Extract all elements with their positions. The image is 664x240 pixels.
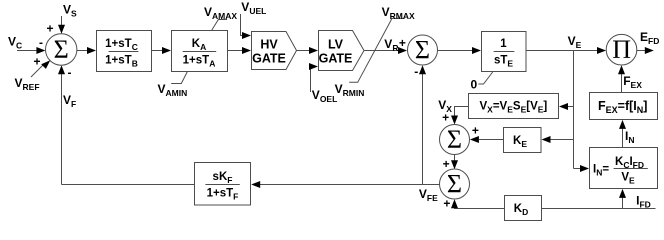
block integrator 1/sTE: [482, 32, 527, 72]
wire KF block output to VF riser: [62, 184, 195, 186]
svg-text:VR: VR: [384, 37, 398, 53]
wire LV gate to S2: [364, 47, 407, 54]
wire VE to VX block: [559, 103, 574, 110]
svg-text:VUEL: VUEL: [241, 0, 266, 16]
svg-text:VRMAX: VRMAX: [382, 5, 415, 21]
svg-text:VC: VC: [8, 34, 22, 50]
wire FEX into multiplier: [618, 65, 625, 92]
LV gate: [319, 31, 365, 71]
wire VFE riser to S2: [419, 65, 426, 184]
summing junction S1: [46, 34, 77, 65]
svg-text:VREF: VREF: [15, 76, 40, 92]
svg-text:VRMIN: VRMIN: [335, 82, 365, 98]
wire lead-lag to KA block: [152, 47, 171, 54]
block KD: [505, 196, 542, 221]
svg-text:LV: LV: [328, 38, 344, 52]
wire HV gate to LV gate: [297, 47, 319, 54]
svg-text:+: +: [399, 36, 406, 50]
svg-text:VF: VF: [63, 93, 76, 109]
summing junction S2: [408, 35, 438, 65]
wire VOEL into LV gate: [309, 63, 318, 92]
wire VE to KE block: [542, 136, 574, 143]
svg-text:0: 0: [471, 78, 478, 92]
svg-text:IN: IN: [625, 129, 634, 145]
svg-text:GATE: GATE: [319, 52, 353, 66]
summing junction S4: [440, 169, 470, 199]
svg-text:+: +: [442, 111, 449, 125]
limiter pointer VRMAX/VRMIN slash: [349, 18, 404, 82]
wire KA block to HV gate: [228, 47, 251, 54]
wire VC into S1 left: [17, 47, 45, 54]
block lead-lag (1+sTC)/(1+sTB): [97, 31, 152, 72]
svg-text:Σ: Σ: [447, 125, 462, 154]
wire VE to IN block: [574, 165, 590, 172]
node VE junction riser: [573, 51, 575, 169]
wire S3 to S4: [451, 155, 458, 170]
svg-text:Σ: Σ: [415, 36, 430, 65]
svg-text:VAMIN: VAMIN: [158, 82, 188, 98]
wire VREF diagonal into S1: [31, 60, 50, 77]
svg-text:IFD: IFD: [636, 193, 651, 209]
svg-text:-: -: [414, 64, 418, 78]
block KE: [504, 128, 542, 153]
svg-text:FEX: FEX: [623, 74, 642, 90]
svg-text:+: +: [443, 197, 450, 211]
wire S1 to lead-lag block: [77, 47, 96, 54]
wire integrator to multiplier: [526, 47, 606, 54]
svg-text:-: -: [68, 66, 72, 80]
wire VS into S1 top: [58, 16, 65, 34]
summing junction S3: [440, 125, 470, 155]
svg-text:Σ: Σ: [54, 35, 69, 64]
multiplier PI: [606, 34, 637, 65]
svg-text:HV: HV: [260, 38, 278, 52]
wire IFD to KD: [542, 208, 656, 210]
block FEX=f[IN]: [590, 93, 658, 120]
wire VF into S1 bottom: [58, 65, 65, 184]
wire EFD output: [637, 47, 654, 54]
svg-text:VFE: VFE: [419, 187, 438, 203]
wire VX block to S3: [451, 107, 469, 125]
svg-text:VS: VS: [63, 3, 77, 19]
svg-text:+: +: [46, 22, 53, 36]
wire KE to S3: [470, 136, 504, 143]
block sKF/(1+sTF): [195, 163, 251, 206]
svg-text:VAMAX: VAMAX: [204, 5, 237, 21]
limit label VAMAX: [204, 5, 237, 30]
svg-text:VE: VE: [568, 34, 582, 50]
wire S2 to integrator: [438, 47, 482, 54]
block KA/(1+sTA): [172, 31, 228, 72]
svg-text:GATE: GATE: [252, 52, 286, 66]
svg-text:-: -: [39, 36, 43, 50]
HV gate: [252, 32, 297, 70]
limit label VAMIN: [158, 72, 188, 99]
wire VFE from S4 to KF block: [251, 181, 439, 188]
wire VUEL into HV gate: [241, 14, 252, 39]
wire IN into FEX block: [619, 120, 626, 147]
svg-text:+: +: [472, 124, 479, 138]
wire KD to S4: [451, 199, 505, 208]
block VX=VE.SE[VE]: [469, 94, 559, 119]
svg-text:1: 1: [500, 38, 507, 50]
initial condition 0 label: [471, 72, 493, 92]
svg-text:Σ: Σ: [447, 170, 462, 199]
svg-text:EFD: EFD: [640, 30, 659, 46]
svg-text:+: +: [33, 55, 40, 69]
svg-text:Π: Π: [612, 35, 631, 64]
wire IFD riser into IN block: [619, 189, 626, 209]
svg-text:VOEL: VOEL: [312, 88, 338, 104]
block IN=KC.IFD/VE: [590, 148, 658, 189]
